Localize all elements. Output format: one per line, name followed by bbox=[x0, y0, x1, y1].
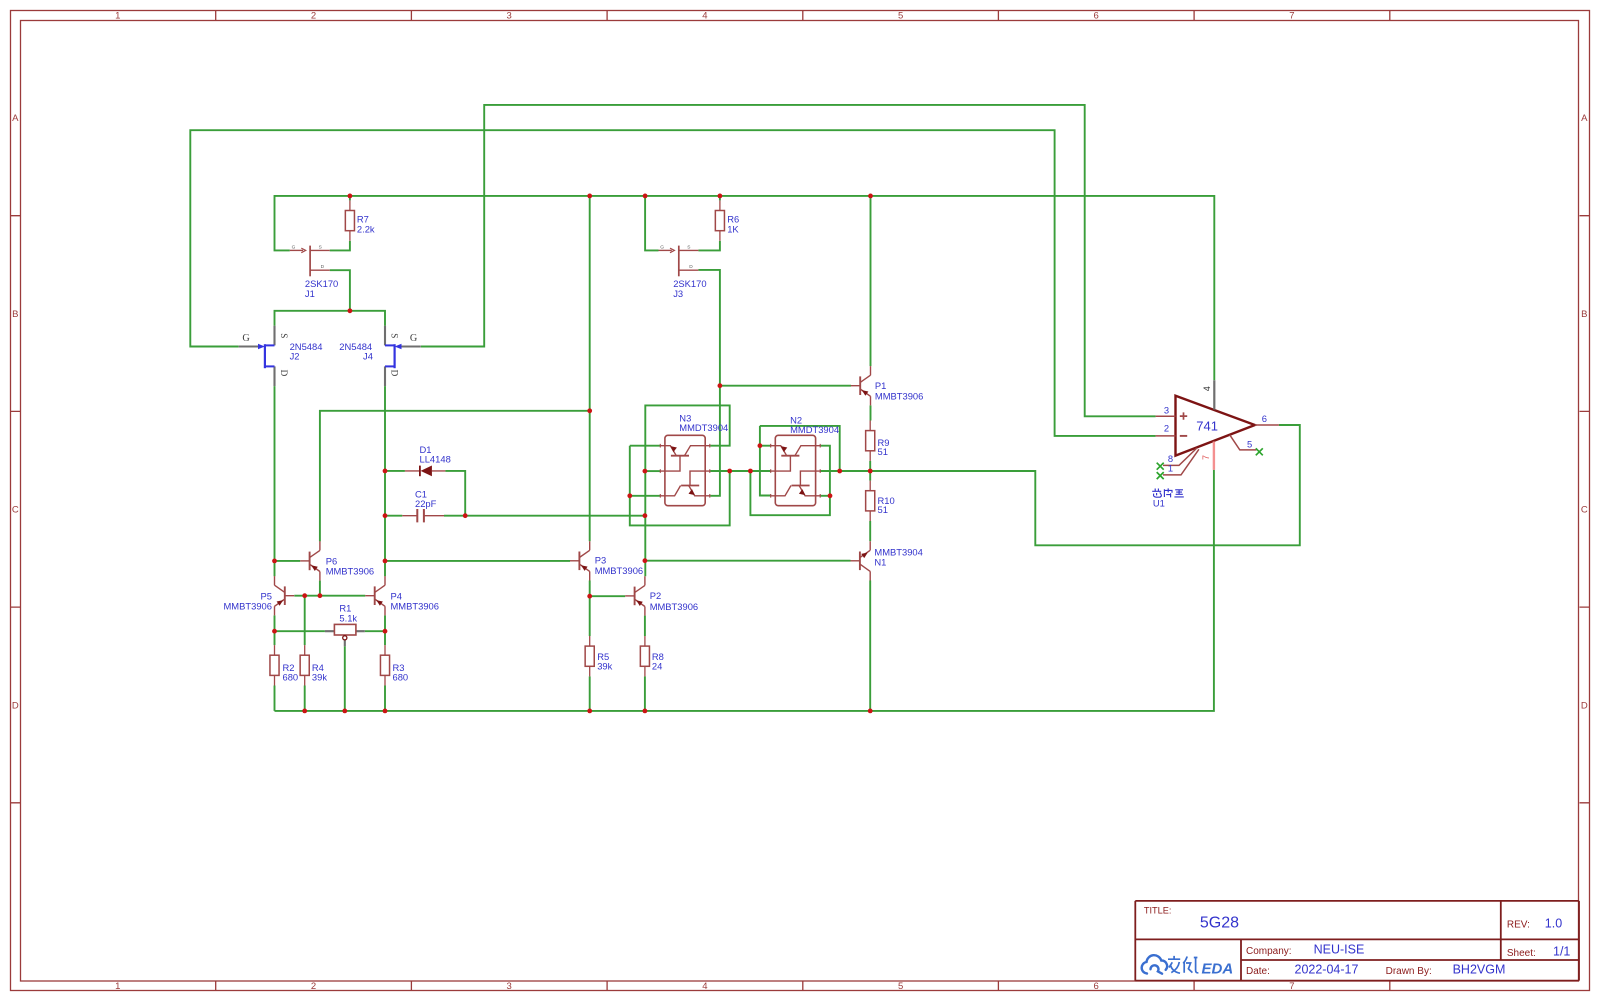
wire: P6 collector to P3 collector (y=411) bbox=[320, 411, 590, 542]
svg-text:39k: 39k bbox=[597, 660, 612, 671]
title block bbox=[1135, 901, 1579, 981]
svg-text:22pF: 22pF bbox=[415, 498, 437, 509]
transistor P4 MMBT3906 bbox=[365, 576, 385, 615]
wire: J4 gate to opamp pin3 bbox=[421, 105, 1156, 416]
wire: J2/J4 source rail bbox=[275, 311, 386, 326]
svg-text:2022-04-17: 2022-04-17 bbox=[1295, 962, 1359, 976]
svg-text:3: 3 bbox=[1164, 405, 1169, 416]
transistor N1 MMBT3904 bbox=[851, 541, 871, 580]
wire: J3 source to R6 bbox=[698, 241, 720, 251]
svg-text:D: D bbox=[689, 264, 693, 270]
svg-text:B: B bbox=[12, 309, 18, 320]
svg-text:D: D bbox=[390, 370, 400, 377]
svg-text:G: G bbox=[242, 333, 250, 344]
wire: B line N3.B2 to N2.B1 bbox=[710, 470, 771, 472]
svg-text:2: 2 bbox=[311, 981, 316, 992]
pin 4 (V+) bbox=[1213, 380, 1215, 409]
EasyEDA logo bbox=[1142, 955, 1167, 973]
wire: J2 gate to opamp pin2 bbox=[190, 130, 1155, 436]
wire: J3 drain long drop to N3 E2 bbox=[698, 270, 720, 496]
wire: J4 drain column bbox=[384, 386, 386, 576]
svg-text:D: D bbox=[321, 264, 325, 270]
svg-text:7: 7 bbox=[1289, 981, 1294, 992]
wire: P1 base bbox=[720, 385, 851, 387]
resistor R6 bbox=[715, 200, 724, 240]
svg-text:24: 24 bbox=[652, 660, 662, 671]
svg-text:1/1: 1/1 bbox=[1553, 944, 1570, 958]
svg-text:J1: J1 bbox=[305, 288, 315, 299]
transistor P1 MMBT3906 bbox=[851, 366, 871, 405]
resistor R4 bbox=[300, 645, 309, 685]
wire: R10 bottom to N1 bbox=[869, 521, 871, 541]
resistor R3 bbox=[380, 645, 389, 685]
wire: R1 left bbox=[275, 630, 325, 632]
svg-text:S: S bbox=[319, 245, 322, 251]
wire: R9 bottom bbox=[869, 461, 871, 471]
svg-text:680: 680 bbox=[393, 672, 409, 683]
svg-text:C: C bbox=[1581, 505, 1588, 516]
wire: R5 bottom bbox=[589, 676, 591, 711]
svg-text:MMDT3904: MMDT3904 bbox=[679, 422, 728, 433]
svg-text:1: 1 bbox=[1168, 463, 1173, 474]
svg-text:1.0: 1.0 bbox=[1545, 917, 1562, 931]
wire: P1 emitter to rail bbox=[870, 196, 872, 366]
svg-text:51: 51 bbox=[878, 504, 888, 515]
svg-text:51: 51 bbox=[878, 446, 888, 457]
diode D1 LL4148 bbox=[405, 466, 446, 477]
svg-text:S: S bbox=[687, 245, 690, 251]
transistor P3 MMBT3906 bbox=[570, 541, 590, 580]
pin 3 bbox=[1156, 415, 1176, 417]
wire: rail drop to P3 collector bbox=[589, 196, 591, 541]
wire: R4 bottom bbox=[304, 686, 306, 711]
wire: R8 bottom bbox=[644, 676, 646, 711]
svg-text:6: 6 bbox=[1094, 11, 1099, 22]
svg-text:TITLE:: TITLE: bbox=[1144, 906, 1172, 916]
wire: J1 drain down to J2/J4 source rail bbox=[330, 270, 350, 311]
svg-text:4: 4 bbox=[702, 11, 707, 22]
svg-text:5G28: 5G28 bbox=[1200, 915, 1239, 932]
svg-text:Sheet:: Sheet: bbox=[1507, 948, 1536, 959]
wire: R1 wiper drop bbox=[344, 646, 346, 711]
svg-text:Date:: Date: bbox=[1246, 966, 1270, 977]
resistor R7 bbox=[345, 200, 354, 240]
pin 2 bbox=[1156, 435, 1176, 437]
potentiometer R1 5.1k bbox=[325, 631, 365, 646]
wire: P1 collector to R9 bbox=[870, 405, 872, 420]
svg-text:BH2VGM: BH2VGM bbox=[1453, 962, 1506, 976]
svg-text:EDA: EDA bbox=[1202, 961, 1234, 978]
resistor R8 bbox=[640, 636, 649, 676]
wire: N1 emitter down to rail bbox=[869, 581, 871, 711]
svg-text:39k: 39k bbox=[312, 672, 327, 683]
wire: D1 left bbox=[385, 470, 405, 472]
svg-text:5: 5 bbox=[898, 11, 903, 22]
op-amp U2 741 bbox=[1176, 396, 1255, 456]
resistor R10 bbox=[866, 481, 875, 521]
capacitor C1 22pF bbox=[402, 509, 444, 522]
pin 5 no-connect bbox=[1230, 435, 1257, 450]
wire: N3 C2 stub line bbox=[630, 495, 661, 497]
svg-text:C: C bbox=[12, 505, 19, 516]
wire: P2 collector to R8 bbox=[644, 616, 646, 636]
wire: N2 loop top bbox=[760, 426, 840, 471]
wire: N2 C1-E2 outer path bbox=[750, 446, 830, 516]
svg-text:7: 7 bbox=[1289, 11, 1294, 22]
wire: J2 drain column bbox=[274, 386, 276, 576]
svg-text:G: G bbox=[292, 245, 296, 251]
svg-text:2: 2 bbox=[311, 11, 316, 22]
svg-text:J2: J2 bbox=[290, 351, 300, 362]
U1 chip socket label bbox=[1152, 488, 1184, 497]
svg-text:N1: N1 bbox=[874, 556, 886, 567]
svg-text:D: D bbox=[12, 700, 19, 711]
transistor J4 2N5484 bbox=[385, 326, 421, 386]
svg-text:P3: P3 bbox=[595, 554, 606, 565]
svg-text:5: 5 bbox=[1247, 439, 1252, 450]
transistor J3 2SK170 bbox=[659, 246, 699, 277]
pin 1 no-connect bbox=[1163, 449, 1199, 475]
svg-text:3: 3 bbox=[507, 11, 512, 22]
svg-text:MMBT3906: MMBT3906 bbox=[650, 601, 698, 612]
wire: R7 top bbox=[349, 196, 351, 201]
wire: P4 collector to P3 base bbox=[385, 560, 570, 562]
svg-text:Drawn By:: Drawn By: bbox=[1386, 966, 1432, 977]
svg-text:MMBT3906: MMBT3906 bbox=[224, 600, 272, 611]
wire: P6 base bbox=[275, 560, 301, 562]
wire: N2 E2 stub line bbox=[820, 495, 830, 497]
svg-text:7: 7 bbox=[1201, 455, 1211, 460]
svg-text:P2: P2 bbox=[650, 590, 661, 601]
svg-text:B: B bbox=[1581, 309, 1587, 320]
wire: P2 base line bbox=[590, 595, 626, 597]
svg-text:J4: J4 bbox=[363, 351, 373, 362]
wire: C1 left bbox=[385, 515, 402, 517]
svg-text:MMBT3906: MMBT3906 bbox=[326, 566, 374, 577]
transistor P6 MMBT3906 bbox=[300, 541, 320, 580]
wire: B line to opamp output loop bbox=[820, 425, 1300, 545]
wire: R10 top bbox=[869, 471, 871, 481]
svg-text:3: 3 bbox=[507, 981, 512, 992]
svg-text:S: S bbox=[390, 333, 400, 338]
svg-text:NEU-ISE: NEU-ISE bbox=[1314, 943, 1365, 957]
svg-text:4: 4 bbox=[1202, 386, 1212, 391]
junction dots bbox=[348, 194, 353, 199]
wire: P5 emitter to R2 bbox=[274, 615, 276, 645]
wire: R3 bottom bbox=[384, 686, 386, 711]
wire: N3 E1 bbox=[630, 445, 661, 447]
wire: N3 left loop E1-B2 bbox=[630, 446, 730, 526]
svg-text:S: S bbox=[279, 333, 289, 338]
transistor P2 MMBT3906 bbox=[625, 576, 645, 615]
wire: D1 right corner bbox=[445, 471, 465, 516]
svg-text:6: 6 bbox=[1262, 413, 1267, 424]
wire: N1 base line bbox=[645, 560, 851, 562]
resistor R9 bbox=[866, 421, 875, 461]
svg-text:G: G bbox=[660, 245, 664, 251]
wire: J3 gate drop bbox=[645, 196, 658, 251]
svg-text:1: 1 bbox=[115, 11, 120, 22]
transistor J2 2N5484 bbox=[239, 326, 275, 386]
wire: P4 emitter to R3 bbox=[384, 615, 386, 645]
transistor P5 MMBT3906 bbox=[275, 576, 295, 615]
transistor J1 2SK170 bbox=[290, 246, 330, 277]
svg-text:MMBT3906: MMBT3906 bbox=[391, 600, 439, 611]
svg-text:MMDT3904: MMDT3904 bbox=[790, 424, 839, 435]
svg-text:D: D bbox=[279, 370, 289, 377]
svg-text:LL4148: LL4148 bbox=[420, 454, 451, 465]
resistor R5 bbox=[585, 636, 594, 676]
svg-text:Company:: Company: bbox=[1246, 946, 1292, 957]
svg-text:G: G bbox=[410, 333, 418, 344]
pin 7 (V-) bbox=[1213, 442, 1215, 470]
wire: R1 right bbox=[365, 630, 385, 632]
svg-text:5: 5 bbox=[898, 981, 903, 992]
wire: P5/P4 base line bbox=[294, 595, 365, 597]
svg-text:680: 680 bbox=[283, 672, 299, 683]
wire: N2 left vertical to C2 bbox=[760, 426, 771, 496]
svg-text:4: 4 bbox=[702, 981, 707, 992]
svg-text:J3: J3 bbox=[673, 288, 683, 299]
svg-text:5.1k: 5.1k bbox=[339, 612, 357, 623]
wire: R4 top bbox=[304, 596, 306, 645]
pin 8 no-connect bbox=[1163, 448, 1197, 465]
wire: P3 emitter to R5 bbox=[589, 581, 591, 637]
wire: R2 bottom bbox=[274, 686, 276, 711]
wire: V+ top rail with J1 gate drop and opamp pin4 drop bbox=[275, 196, 1215, 380]
svg-text:D: D bbox=[1581, 700, 1588, 711]
resistor R2 bbox=[270, 645, 279, 685]
svg-text:REV:: REV: bbox=[1507, 919, 1530, 930]
wire: N3 B1 stub line bbox=[645, 470, 660, 472]
svg-text:A: A bbox=[1581, 113, 1588, 124]
wire: R7 bottom to J1 source bbox=[330, 241, 350, 251]
pin 6 bbox=[1255, 424, 1279, 426]
svg-text:MMBT3906: MMBT3906 bbox=[595, 565, 643, 576]
svg-text:MMBT3906: MMBT3906 bbox=[875, 391, 923, 402]
svg-text:1K: 1K bbox=[727, 223, 739, 234]
wire: bottom rail to opamp pin7 bbox=[275, 470, 1214, 711]
wire: P6 emitter drop bbox=[319, 581, 321, 596]
svg-text:A: A bbox=[12, 113, 19, 124]
svg-text:2: 2 bbox=[1164, 422, 1169, 433]
svg-text:741: 741 bbox=[1196, 418, 1218, 433]
svg-text:1: 1 bbox=[115, 981, 120, 992]
svg-text:U1: U1 bbox=[1153, 497, 1165, 508]
svg-text:6: 6 bbox=[1094, 981, 1099, 992]
wire: C1 right to N3 node bbox=[444, 515, 645, 517]
wire: N2 E1 stub line bbox=[760, 445, 771, 447]
transistor pack N2 MMDT3904 bbox=[771, 435, 821, 505]
svg-text:2.2k: 2.2k bbox=[357, 223, 375, 234]
transistor pack N3 MMDT3904 bbox=[660, 435, 710, 505]
wire: R6 top bbox=[719, 196, 721, 201]
wire: N3 C1 loop over top to B1 column bbox=[645, 405, 729, 576]
